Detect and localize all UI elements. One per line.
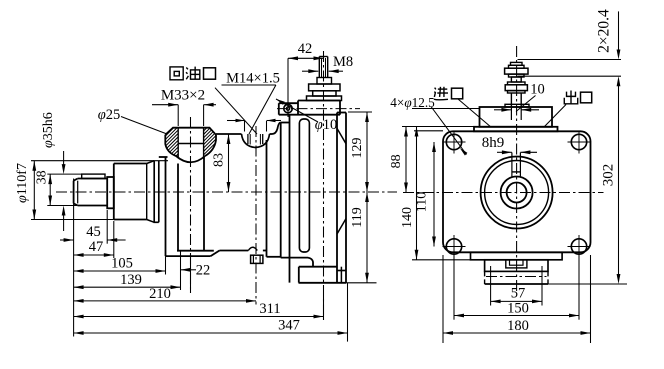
dimension 47 — [74, 254, 114, 256]
dimension 45 outside arrows — [60, 239, 74, 241]
ring collar behind spigot — [153, 161, 155, 223]
housing underside and S-curve to base — [281, 257, 308, 259]
dimension 110 between bolt holes — [433, 142, 435, 247]
47 dim extension at spigot face — [113, 221, 115, 258]
svg-text:129: 129 — [350, 138, 365, 159]
horizontal centerline of right view — [403, 192, 604, 194]
svg-text:47: 47 — [89, 239, 104, 255]
port axis centerline — [255, 126, 257, 305]
drain boss arc and plug under body — [248, 247, 257, 250]
shared top extension line at cover seat — [402, 126, 474, 128]
deck face line right of nut — [216, 133, 242, 135]
bottom foot block with dashed hidden edges — [484, 271, 486, 284]
foot tier plates under mounting plate — [471, 252, 563, 259]
shaft end face and extension line down to dimension datum — [73, 179, 75, 337]
svg-text:110: 110 — [415, 192, 430, 212]
valve body bottom extension line — [412, 108, 480, 110]
svg-text:139: 139 — [120, 272, 142, 288]
valve upper hex nut — [505, 68, 528, 74]
dimension 8h9 with outside arrows — [497, 151, 512, 153]
front body verticals going down to foot — [165, 157, 167, 256]
bolt hole top-left with cross — [446, 134, 461, 149]
dimension 347 — [74, 332, 348, 334]
dimension 302 total height — [618, 85, 620, 275]
shaft bottom line extended left as 38 extension — [47, 205, 77, 207]
dimension 150 — [454, 315, 579, 317]
150 extension lines from bolt holes — [453, 255, 455, 320]
bolt hole bottom-left — [446, 239, 461, 254]
hidden channel centerline inside bottom foot block — [486, 276, 547, 278]
labels jin-kou inlet and chu-kou outlet leaders — [458, 99, 490, 127]
svg-text:φ35h6: φ35h6 — [41, 112, 56, 148]
svg-text:180: 180 — [507, 318, 529, 334]
valve boss collar width 10 — [505, 104, 529, 107]
label jin-kou (inlet) — [438, 88, 447, 90]
svg-text:10: 10 — [530, 82, 545, 98]
svg-text:88: 88 — [389, 154, 404, 168]
dimension M8 with outside arrows — [302, 70, 309, 72]
dimension 105 — [74, 270, 166, 272]
rear base block — [299, 266, 337, 268]
valve stem upper — [511, 77, 521, 82]
2x20.4 dimension lines at valve top — [518, 59, 622, 61]
relief valve side view: M8 stud with thread — [319, 56, 327, 58]
svg-text:M33×2: M33×2 — [161, 88, 205, 104]
svg-text:311: 311 — [259, 301, 280, 317]
svg-text:347: 347 — [278, 318, 300, 334]
svg-text:φ110f7: φ110f7 — [15, 163, 30, 203]
bottom dimension chain extension lines — [165, 256, 167, 274]
label chu-kou (outlet) — [570, 91, 572, 104]
plate top edge extension — [414, 130, 443, 132]
main horizontal centerline — [56, 191, 397, 193]
dimension 88 from seat line to centerline — [405, 127, 407, 193]
dimension 119 — [366, 192, 368, 283]
foot boss small rect — [506, 260, 527, 268]
valve cover plate — [474, 127, 558, 132]
front foot under body — [166, 255, 211, 257]
key on shaft, top line extended left as 38 extension — [47, 173, 81, 175]
svg-text:57: 57 — [511, 286, 526, 302]
dimension 38 with inside arrows — [49, 174, 51, 205]
180 extension lines from plate edges — [442, 255, 444, 343]
mid-body rear rim vertical — [266, 140, 268, 257]
central bore concentric circles — [481, 157, 553, 229]
45 dim extension at collar face — [106, 210, 108, 244]
dimension 10 arrows at stem — [494, 109, 502, 111]
hex nut axis centerline extended down as 22 reference — [190, 117, 192, 293]
dimension 57 — [491, 300, 542, 302]
rear mounting plate seen edge-on with corner bevels — [337, 112, 346, 114]
svg-text:8h9: 8h9 — [482, 135, 505, 151]
dimension 129 — [348, 111, 372, 113]
dimension phi110f7 — [33, 161, 35, 220]
svg-text:4×φ12.5: 4×φ12.5 — [390, 95, 435, 110]
svg-text:140: 140 — [400, 207, 415, 228]
svg-text:38: 38 — [34, 170, 49, 184]
hex nut inner facet lines — [177, 128, 179, 159]
mid-body bottom line — [220, 250, 249, 252]
valve body block — [480, 107, 553, 127]
spigot cylinder phi110 with cone transition to ring — [113, 164, 115, 220]
svg-text:302: 302 — [601, 164, 617, 187]
mounting plate with rounded corners — [443, 131, 591, 252]
57 extension lines — [490, 266, 492, 306]
svg-text:119: 119 — [350, 207, 365, 227]
svg-text:42: 42 — [298, 41, 313, 57]
svg-text:φ25: φ25 — [98, 107, 121, 123]
keyway slot 8h9 in bore — [511, 153, 513, 178]
svg-text:105: 105 — [111, 255, 133, 271]
dimension 210 — [74, 300, 256, 302]
phi110 top extension line — [31, 160, 168, 162]
hex gland nut M33x2 outline — [165, 128, 216, 135]
locating pin ear on rear block — [278, 103, 280, 115]
dimension 180 — [443, 332, 591, 334]
svg-text:M8: M8 — [333, 54, 353, 70]
valve bore axis dash-dot through block — [277, 108, 360, 110]
dimension 311 — [74, 316, 324, 318]
under-nut boss right edge — [203, 157, 205, 251]
svg-text:150: 150 — [507, 300, 529, 316]
shaft collar step — [107, 177, 114, 208]
dimension 22 arrow — [181, 268, 191, 272]
svg-text:2×20.4: 2×20.4 — [596, 9, 613, 53]
deck top left of hex nut — [159, 156, 168, 158]
dimension 139 — [74, 286, 181, 288]
rear top mounting block for valve — [298, 100, 340, 102]
dimension 83 — [228, 134, 230, 192]
dimension 42 — [287, 58, 289, 117]
vertical centerline of right view — [516, 46, 518, 292]
deck face right of port and S-curve up to rear — [270, 133, 273, 135]
119 bottom extension line — [346, 282, 377, 284]
dimension 140 from seat line to foot bottom — [412, 259, 471, 261]
rear housing front face — [289, 115, 291, 283]
phi10 locating pin — [284, 104, 292, 112]
valve adjusting screw cap — [511, 62, 523, 65]
svg-text:45: 45 — [86, 224, 101, 240]
svg-text:22: 22 — [196, 263, 211, 279]
rear housing front vertical — [280, 123, 282, 258]
valve locknuts side view — [317, 78, 332, 85]
svg-text:M14×1.5: M14×1.5 — [226, 71, 280, 87]
shaft body phi35 with end chamfer — [73, 181, 75, 204]
hex nut bottom dome arc — [176, 156, 205, 162]
valve lower hex nut stack — [508, 82, 526, 85]
M14 return port bowl recess with thread lines — [242, 134, 270, 148]
port width arrows — [244, 121, 246, 132]
valve stem lower — [510, 93, 512, 107]
valve axis centerline — [323, 51, 325, 320]
svg-text:φ10: φ10 — [315, 117, 338, 133]
label phi10 with leader through pin — [276, 99, 318, 122]
phi110 bottom extension line — [31, 219, 114, 221]
label hui-you-kou (return oil port) — [170, 67, 183, 80]
bolt hole bottom-right — [571, 239, 586, 254]
svg-text:210: 210 — [149, 286, 171, 302]
inner panel with rounded ends on rear housing — [299, 119, 309, 252]
bolt hole top-right — [571, 134, 586, 149]
dimension M33x2 with outside arrows and extension lines — [177, 105, 179, 126]
svg-text:83: 83 — [212, 153, 227, 167]
